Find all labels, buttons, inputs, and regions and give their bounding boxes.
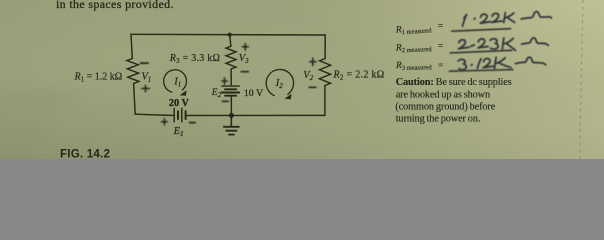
- svg-text:in the spaces provided.: in the spaces provided.: [56, 0, 174, 11]
- blank line row 1: [452, 29, 511, 32]
- measured-value printed labels: [395, 22, 444, 72]
- resistor R2 zigzag: [319, 59, 330, 86]
- svg-text:10 V: 10 V: [244, 88, 263, 99]
- wire: middle branch between R3 and E2: [230, 69, 232, 85]
- V1 plus: [142, 85, 150, 91]
- polarity marks: [141, 44, 316, 125]
- I1 arrowhead: [180, 90, 187, 96]
- blank line row 2: [450, 50, 512, 53]
- V3 plus: [242, 44, 248, 50]
- perforation dashed line at right edge: [580, 0, 584, 159]
- handwritten ohm squiggle row3: [515, 57, 545, 65]
- wire: top horizontal: [131, 33, 325, 36]
- faint scan smudges: [0, 90, 80, 110]
- handwritten ohm squiggle row1: [521, 12, 551, 19]
- resistor R1 zigzag: [127, 59, 139, 84]
- V3 minus: [241, 71, 248, 73]
- node junction dot bottom (ground node): [229, 113, 234, 118]
- wire: bottom right of E1: [186, 114, 325, 116]
- label R2 measured: [395, 42, 444, 55]
- caution paragraph: [395, 77, 511, 124]
- svg-text:(common ground) before: (common ground) before: [395, 102, 495, 113]
- loop current I1 arrow arc: [164, 70, 187, 92]
- wire: right vertical upper: [324, 35, 326, 59]
- handwritten 1.22K ohm row1: [463, 15, 467, 27]
- E1 minus: [190, 122, 195, 124]
- label R1 measured: [395, 22, 444, 37]
- svg-text:20 V: 20 V: [169, 98, 190, 109]
- wire: bottom left of E1: [135, 114, 174, 115]
- svg-text:Caution: Be sure dc supplies: Caution: Be sure dc supplies: [396, 77, 512, 88]
- V2 minus: [309, 86, 316, 88]
- battery E1 plates: [173, 108, 175, 122]
- wire: right vertical lower: [324, 86, 326, 116]
- handwriting: measured values: [463, 12, 552, 27]
- paper background: [0, 0, 604, 159]
- ground symbol bars: [224, 126, 239, 128]
- label R3 measured: [395, 60, 444, 72]
- handwritten 3.12K ohm row3: [458, 59, 466, 69]
- wire: ground stem: [230, 115, 232, 126]
- wire: left vertical lower: [134, 84, 136, 115]
- blank line row 3: [450, 70, 513, 72]
- E2 plus: [222, 78, 227, 84]
- loop current I2 arrow arc: [266, 69, 293, 95]
- I2 arrowhead: [284, 94, 291, 100]
- resistor R3 zigzag: [226, 46, 236, 69]
- battery E2 plates: [222, 85, 239, 87]
- node junction dot top (middle branch / top wire): [228, 33, 232, 37]
- E1 plus: [162, 119, 168, 125]
- V1 minus: [141, 62, 149, 64]
- svg-text:FIG. 14.2: FIG. 14.2: [60, 147, 110, 159]
- wire: middle branch below E2: [230, 97, 232, 116]
- handwritten answer blanks: [450, 29, 513, 71]
- wire: left vertical upper: [131, 34, 132, 58]
- circuit text labels: [74, 53, 385, 138]
- svg-text:are hooked up as shown: are hooked up as shown: [396, 90, 490, 101]
- wire: middle branch top: [230, 35, 231, 47]
- svg-text:turning the power on.: turning the power on.: [396, 113, 481, 124]
- V2 plus: [310, 58, 316, 65]
- handwritten ohm squiggle row2: [522, 38, 549, 46]
- handwritten 2.23K ohm row2: [459, 40, 469, 49]
- E2 minus: [223, 100, 229, 102]
